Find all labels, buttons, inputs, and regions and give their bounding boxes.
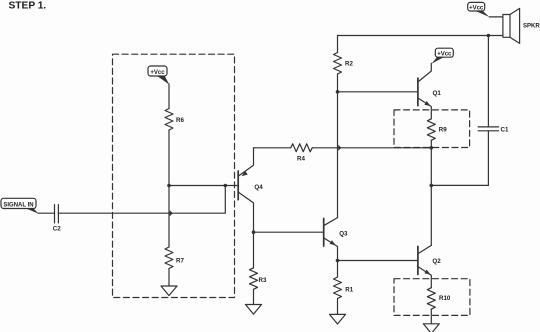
wire R10 to ground [430,309,432,324]
node bias junction [167,184,171,188]
arrow R4 into column [338,145,341,151]
svg-text:SPKR: SPKR [523,24,540,30]
transistor Q1 [418,63,441,119]
wire Q4 base rail [169,185,238,187]
wire Q1 base rail [338,91,418,93]
transistor Q3 [324,218,348,261]
node C1 rail junction [430,184,434,188]
wire bus to R2 [337,36,339,53]
svg-text:R10: R10 [439,295,451,302]
wire Q2 collector column [430,185,432,245]
wire R3 to ground [253,289,255,304]
wire Q3 base rail [254,231,324,233]
wire R2 down to Q3 collector [337,74,339,218]
wire R1 to ground [337,299,339,315]
wire signal to C2 [38,212,55,214]
ground R1 [330,314,346,324]
resistor R6 [165,109,173,131]
svg-text:R6: R6 [176,117,184,124]
dashed box bias network [113,54,235,297]
resistor R1 [334,277,342,299]
svg-text:+Vcc: +Vcc [150,70,165,76]
ground bias [161,286,177,296]
ground R10 [423,324,439,332]
transistor Q4 [238,148,263,232]
arrow signal into stage [170,210,173,216]
transistor Q2 [418,245,441,287]
speaker SPKR [503,8,540,43]
svg-text:STEP 1.: STEP 1. [9,1,47,12]
svg-text:+Vcc: +Vcc [437,51,452,57]
svg-text:R4: R4 [297,156,305,163]
power +Vcc Q1 callout [432,48,454,64]
wire Q2 base rail [338,260,418,262]
svg-text:C2: C2 [53,226,61,233]
power +Vcc bias callout [148,66,169,85]
node R2 base junction [336,90,340,94]
wire Vcc to R6 [168,84,170,109]
resistor R2 [334,53,342,75]
svg-text:R9: R9 [439,126,447,133]
wire R9 to bus [430,140,432,148]
resistor R3 [250,268,258,290]
wire Vcc to speaker [489,16,503,18]
node Q4 collector junction [252,230,256,234]
svg-text:R3: R3 [259,277,267,284]
node R9 bus junction [430,146,434,150]
power +Vcc speaker callout [468,2,490,17]
svg-text:SIGNAL IN: SIGNAL IN [3,202,33,208]
node speaker bus junction [487,34,491,38]
svg-text:R7: R7 [176,258,184,265]
wire R4 to bus junction [312,147,431,149]
svg-text:R2: R2 [345,60,353,67]
resistor R4 [291,144,313,152]
wire top bus [338,35,503,37]
wire C1 rail [431,184,488,186]
capacitor C2 [55,205,59,223]
resistor R7 [165,247,173,269]
svg-text:R1: R1 [345,286,353,293]
wire R7 to ground [168,269,170,287]
wire to R3 [253,232,255,268]
svg-text:C1: C1 [501,127,509,134]
ground R3 [246,305,262,315]
svg-text:Q1: Q1 [433,90,442,97]
dashed box R10 [394,279,470,316]
node signal riser top [224,184,228,188]
wire C2 to riser [58,186,225,214]
svg-text:Q3: Q3 [339,230,348,237]
wire R4 bus [254,147,291,149]
svg-text:+Vcc: +Vcc [469,5,484,11]
svg-text:Q2: Q2 [432,258,441,265]
wire down to C1 rail [430,148,432,186]
dashed box R9 [394,110,470,148]
wire C1 column upper [487,36,489,127]
capacitor C1 [478,127,498,131]
node Q3 emitter junction [336,259,340,263]
svg-text:Q4: Q4 [254,184,263,191]
wire R6 to R7 [168,130,170,247]
resistor R9 [427,119,435,141]
wire to R1 [337,261,339,278]
resistor R10 [427,288,435,310]
signal in callout [1,198,38,213]
wire C1 column lower [487,131,489,186]
